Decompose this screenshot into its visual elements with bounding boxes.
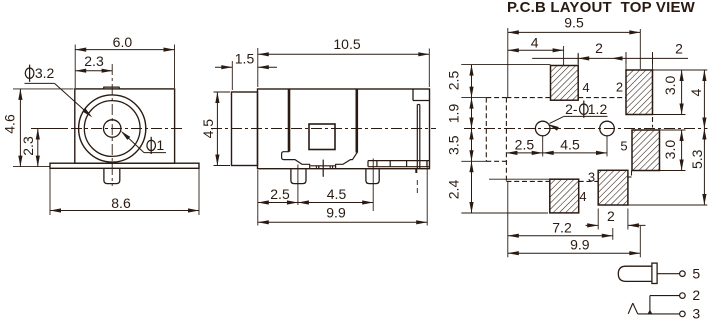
svg-text:2: 2 (616, 80, 623, 95)
svg-text:9.9: 9.9 (326, 205, 346, 221)
svg-text:2: 2 (675, 40, 683, 56)
svg-text:4.5: 4.5 (200, 119, 216, 139)
svg-text:2: 2 (595, 40, 603, 56)
svg-text:4: 4 (688, 88, 704, 96)
svg-text:4.5: 4.5 (560, 137, 580, 153)
svg-text:3: 3 (588, 170, 595, 185)
svg-text:4: 4 (531, 34, 539, 50)
svg-text:2: 2 (607, 208, 615, 224)
svg-text:3.5: 3.5 (445, 135, 461, 155)
svg-text:1.2: 1.2 (588, 101, 608, 117)
svg-text:4.5: 4.5 (327, 186, 347, 202)
svg-text:4: 4 (579, 189, 586, 204)
svg-text:1: 1 (156, 137, 164, 153)
svg-text:4.6: 4.6 (2, 114, 18, 134)
svg-text:3.0: 3.0 (662, 140, 678, 160)
svg-text:7.2: 7.2 (552, 219, 572, 235)
svg-text:2: 2 (692, 287, 700, 303)
svg-text:2.3: 2.3 (84, 53, 104, 69)
svg-text:4: 4 (582, 80, 589, 95)
svg-text:6.0: 6.0 (113, 34, 133, 50)
svg-text:3.2: 3.2 (35, 65, 55, 81)
svg-text:2.4: 2.4 (445, 180, 461, 200)
svg-text:2.5: 2.5 (445, 71, 461, 91)
svg-text:9.5: 9.5 (564, 15, 584, 31)
svg-text:1.5: 1.5 (235, 51, 255, 67)
svg-text:2.5: 2.5 (515, 137, 535, 153)
svg-text:2.3: 2.3 (20, 136, 36, 156)
svg-text:5: 5 (692, 265, 700, 281)
svg-text:5: 5 (620, 139, 627, 154)
svg-text:8.6: 8.6 (111, 195, 131, 211)
svg-text:P.C.B LAYOUT TOP VIEW: P.C.B LAYOUT TOP VIEW (507, 0, 696, 16)
svg-text:3: 3 (692, 306, 700, 320)
svg-text:5.3: 5.3 (689, 149, 705, 169)
svg-text:10.5: 10.5 (333, 36, 360, 52)
svg-text:2.5: 2.5 (270, 186, 290, 202)
svg-text:9.9: 9.9 (570, 236, 590, 252)
svg-text:1.9: 1.9 (445, 104, 461, 124)
svg-text:3.0: 3.0 (662, 75, 678, 95)
svg-text:2-: 2- (565, 101, 578, 117)
